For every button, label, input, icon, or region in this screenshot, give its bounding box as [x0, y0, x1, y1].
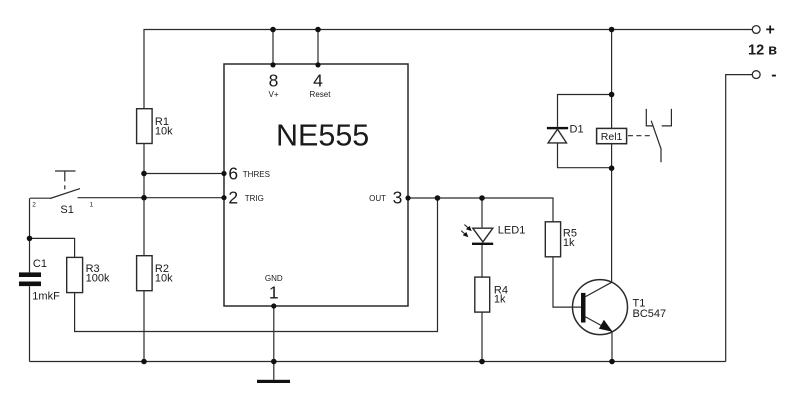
wire C1 node to R3 top	[30, 238, 75, 257]
svg-text:4: 4	[313, 70, 323, 90]
svg-text:100k: 100k	[86, 273, 110, 285]
wire pin 4 to top rail	[317, 30, 319, 65]
terminal -	[752, 67, 776, 84]
node ground rail pin 1	[271, 359, 277, 365]
node C1 top	[27, 236, 33, 242]
svg-text:Rel1: Rel1	[601, 131, 623, 143]
transistor T1 BC547	[573, 280, 667, 335]
node LED branch	[479, 195, 485, 201]
wire dashed relay link	[628, 135, 653, 137]
wire collector up to relay node	[611, 168, 613, 282]
svg-text:12 в: 12 в	[748, 43, 777, 59]
resistor R1	[137, 109, 174, 144]
svg-text:C1: C1	[33, 258, 47, 270]
node pin 4	[315, 62, 320, 67]
svg-text:+: +	[766, 22, 775, 39]
node pin 2	[221, 195, 226, 200]
node pin 8	[270, 62, 275, 67]
wire R4 bottom to ground rail	[481, 312, 483, 361]
wire relay node to D1 top	[558, 95, 612, 127]
wire D1 anode to relay bottom node	[558, 143, 612, 168]
node pin 3	[405, 195, 410, 200]
node pin 6	[221, 171, 226, 176]
LED1 light arrow upper	[464, 225, 471, 232]
svg-text:V+: V+	[268, 90, 278, 99]
wire emitter down to ground rail	[611, 331, 613, 361]
svg-text:Reset: Reset	[310, 90, 332, 99]
node TRIG left	[141, 195, 147, 201]
terminal + 12V	[748, 22, 777, 59]
wire THRES pin 6	[144, 173, 224, 175]
wire pin 1 to ground symbol	[273, 306, 275, 380]
svg-text:8: 8	[269, 70, 279, 90]
wire pin 8 to top rail	[272, 30, 274, 65]
wire - terminal to right rail	[726, 75, 753, 362]
svg-text:10k: 10k	[155, 273, 173, 285]
svg-text:-: -	[771, 67, 776, 84]
node top rail relay drop	[609, 27, 615, 33]
wire top rail V+	[144, 30, 752, 109]
svg-text:3: 3	[393, 188, 403, 208]
wire R5 bottom to transistor base	[553, 257, 581, 307]
node THRES left	[141, 171, 147, 177]
switch S1	[30, 171, 94, 216]
diode D1	[547, 124, 584, 143]
node relay top	[609, 92, 615, 98]
node pin 1	[271, 303, 276, 308]
node ground rail emitter	[609, 359, 615, 365]
relay coil Rel1	[597, 128, 627, 143]
wire OUT node down to LED1	[481, 198, 483, 227]
svg-text:1k: 1k	[563, 237, 575, 249]
svg-text:2: 2	[32, 201, 36, 208]
capacitor C1	[19, 258, 60, 303]
relay contact	[646, 109, 671, 162]
wire R2 bottom to ground rail	[143, 291, 145, 362]
wire R3 bottom feedback to OUT node	[75, 198, 438, 332]
svg-text:D1: D1	[570, 124, 584, 136]
wire ground rail	[30, 361, 726, 363]
wire switch left contact down to C1 node	[29, 198, 31, 238]
svg-text:1: 1	[90, 201, 94, 208]
svg-text:OUT: OUT	[369, 194, 386, 203]
node relay bottom	[609, 165, 615, 171]
wire main V+ drop to relay	[611, 30, 613, 129]
wire TRIG pin 2	[78, 197, 225, 199]
resistor R3	[67, 257, 110, 292]
node top rail pin 4	[315, 27, 321, 33]
wire OUT pin 3 to R5 branch	[408, 198, 553, 222]
resistor R2	[137, 256, 174, 291]
wire relay bottom segment	[611, 144, 613, 169]
svg-text:10k: 10k	[155, 126, 173, 138]
svg-text:1: 1	[269, 283, 279, 303]
svg-text:BC547: BC547	[633, 308, 667, 320]
svg-text:1mkF: 1mkF	[32, 291, 60, 303]
svg-text:S1: S1	[60, 204, 73, 216]
svg-text:1k: 1k	[494, 294, 506, 306]
op-amp U1 NE555 body	[224, 64, 408, 306]
svg-text:2: 2	[228, 187, 238, 207]
svg-text:6: 6	[228, 164, 238, 184]
svg-text:TRIG: TRIG	[245, 194, 264, 203]
wire R1 bottom to R2 top	[143, 144, 145, 256]
svg-text:LED1: LED1	[498, 224, 526, 236]
wire C1 node to C1 top plate	[29, 238, 31, 272]
LED1 light arrow lower	[461, 231, 468, 238]
wire LED1 cathode to R4	[481, 245, 483, 277]
node top rail pin 8	[270, 27, 276, 33]
node ground rail R4	[479, 359, 485, 365]
svg-text:THRES: THRES	[243, 170, 270, 179]
node ground rail R2	[141, 359, 147, 365]
node OUT feedback	[435, 195, 441, 201]
wire C1 bottom plate to ground rail	[29, 286, 31, 361]
ground	[257, 380, 290, 383]
svg-text:NE555: NE555	[276, 119, 369, 153]
LED LED1	[461, 224, 525, 245]
resistor R5	[545, 222, 577, 257]
resistor R4	[475, 277, 508, 312]
